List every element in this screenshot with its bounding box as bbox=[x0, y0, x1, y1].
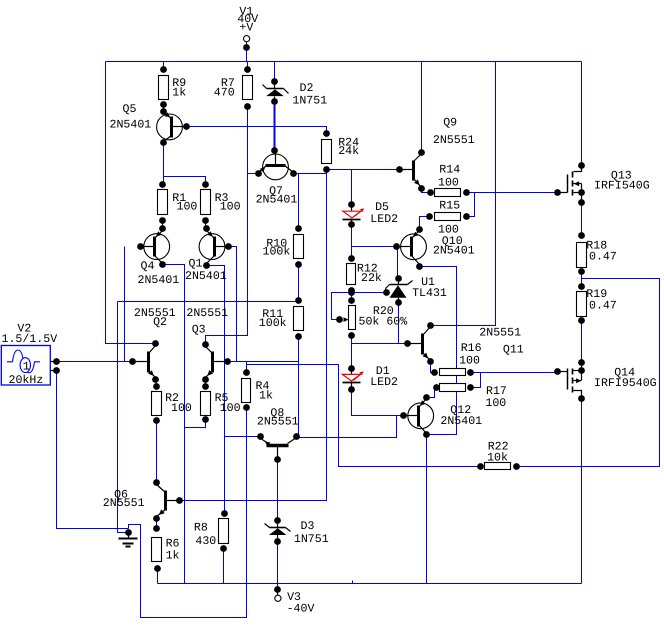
source V2 box bbox=[1, 346, 50, 386]
resistor R12 bbox=[347, 264, 356, 285]
wire R19 to Q14 bbox=[581, 321, 583, 363]
transistor Q12 bbox=[400, 394, 434, 438]
wire R12 junction bbox=[351, 291, 353, 301]
svg-text:100k: 100k bbox=[263, 246, 291, 259]
value D3 1N751 bbox=[294, 533, 329, 546]
pin dots R15 bbox=[426, 213, 470, 220]
value R5 100 bbox=[220, 402, 241, 415]
resistor R5 bbox=[201, 392, 211, 416]
label R20 bbox=[373, 305, 394, 318]
value R20 50k 60% bbox=[359, 315, 408, 328]
svg-text:Q2: Q2 bbox=[153, 316, 167, 329]
wire output to R22 bbox=[517, 279, 660, 467]
label R7 bbox=[221, 77, 235, 90]
svg-text:R15: R15 bbox=[439, 199, 460, 212]
label R14 bbox=[439, 164, 460, 177]
svg-text:22k: 22k bbox=[361, 272, 382, 285]
wire Q9 emitter to R14 bbox=[422, 189, 431, 193]
svg-text:2N5401: 2N5401 bbox=[256, 194, 298, 207]
label +V bbox=[239, 21, 253, 34]
value Q5 2N5401 bbox=[110, 118, 152, 131]
wire rail stub bbox=[352, 581, 354, 584]
svg-text:Q1: Q1 bbox=[189, 257, 203, 270]
value Q12 2N5401 bbox=[440, 415, 482, 428]
svg-text:2N5401: 2N5401 bbox=[138, 274, 180, 287]
label D1 bbox=[376, 365, 390, 378]
wire R24 to D5 and Q9 base bbox=[327, 169, 400, 171]
label Q3 bbox=[192, 324, 206, 337]
resistor R3 bbox=[201, 190, 211, 215]
label 2N5551 Q2 bbox=[134, 307, 176, 320]
LED D5 bbox=[343, 201, 365, 228]
value R2 100 bbox=[171, 402, 192, 415]
wire U1 anode drop bbox=[398, 303, 400, 344]
wire Q1 emitter tail to R8 bbox=[207, 266, 225, 514]
label Q10 bbox=[442, 235, 463, 248]
label Q4 bbox=[141, 260, 155, 273]
label R9 bbox=[172, 77, 186, 90]
svg-text:1k: 1k bbox=[172, 87, 186, 100]
pin dots R11 bbox=[295, 297, 302, 340]
label R10 bbox=[266, 238, 287, 251]
svg-text:430: 430 bbox=[195, 535, 216, 548]
wire rail to Q13 drain bbox=[581, 62, 583, 166]
svg-text:1k: 1k bbox=[259, 389, 273, 402]
source V2 sine bbox=[7, 350, 40, 373]
wire R10 to R11 bbox=[298, 265, 300, 301]
resistor R16 bbox=[440, 369, 466, 376]
pin dots R12 bbox=[348, 255, 355, 296]
wire R14 to Q13 gate bbox=[467, 192, 558, 194]
value D2 1N751 bbox=[292, 95, 327, 108]
resistor R11 bbox=[294, 307, 304, 331]
resistor R18 bbox=[577, 243, 587, 268]
svg-text:100: 100 bbox=[459, 355, 480, 368]
resistor R7 bbox=[243, 76, 253, 100]
value R4 1k bbox=[259, 389, 273, 402]
transistor Q2 bbox=[129, 340, 159, 383]
wire D3 to V3 bbox=[277, 542, 279, 590]
wire Q1 base drop bbox=[229, 247, 237, 362]
wire Q14 drain to rail bbox=[581, 399, 583, 584]
resistor R15 bbox=[435, 213, 461, 221]
pin dots R19 bbox=[578, 283, 585, 324]
pin dots R6 bbox=[153, 525, 161, 572]
svg-text:D2: D2 bbox=[300, 82, 314, 95]
wire tail branch to Q8 emitter bbox=[225, 436, 261, 438]
wire R15 to Q10 collector bbox=[420, 217, 430, 230]
svg-text:2N5401: 2N5401 bbox=[110, 118, 152, 131]
svg-text:1.5/1.5V: 1.5/1.5V bbox=[2, 333, 58, 346]
value R17 100 bbox=[485, 397, 506, 410]
wire V1 to top rail bbox=[246, 42, 248, 62]
wire V2 plus row bbox=[57, 361, 133, 363]
ground bbox=[119, 529, 138, 546]
svg-text:100k: 100k bbox=[259, 317, 287, 330]
svg-text:IRFI540G: IRFI540G bbox=[594, 180, 650, 193]
wire R2 to Q6 collector bbox=[156, 421, 158, 483]
wire R1 to Q4 bbox=[162, 221, 164, 229]
value Q6 2N5551 bbox=[103, 497, 145, 510]
svg-text:2N5401: 2N5401 bbox=[440, 415, 482, 428]
pin dots R24 bbox=[323, 130, 330, 173]
svg-text:0.47: 0.47 bbox=[589, 251, 617, 264]
value -40V bbox=[287, 603, 315, 616]
svg-text:24k: 24k bbox=[338, 145, 359, 158]
label R8 bbox=[194, 522, 208, 535]
transistor Q4 bbox=[137, 225, 170, 268]
wire Q3 emitter to R5 bbox=[205, 380, 207, 387]
svg-text:2N5551: 2N5551 bbox=[257, 416, 299, 429]
label 20kHz bbox=[9, 374, 44, 387]
svg-text:R16: R16 bbox=[461, 342, 482, 355]
svg-text:1: 1 bbox=[23, 361, 30, 374]
zener diode D2 bbox=[263, 78, 289, 105]
label R6 bbox=[166, 538, 180, 551]
label R24 bbox=[338, 137, 359, 150]
transistor Q11 bbox=[404, 322, 434, 365]
value Q1 2N5401 bbox=[185, 270, 227, 283]
svg-text:R14: R14 bbox=[439, 164, 460, 177]
value R14 100 bbox=[438, 176, 459, 189]
wire R17 to Q12 collector bbox=[427, 388, 437, 398]
wire Q10 emitter tail to Q12 emitter bbox=[420, 267, 457, 435]
value R11 100k bbox=[259, 317, 287, 330]
wire R9 to Q5 bbox=[163, 105, 165, 112]
wire R18 to R19 bbox=[581, 272, 583, 287]
label Q14 bbox=[614, 366, 635, 379]
svg-text:100: 100 bbox=[171, 402, 192, 415]
svg-text:Q4: Q4 bbox=[141, 260, 155, 273]
svg-text:+V: +V bbox=[239, 21, 253, 34]
transistor Q10 bbox=[393, 226, 426, 270]
resistor R2 bbox=[152, 392, 162, 416]
svg-text:Q9: Q9 bbox=[443, 117, 457, 130]
label V2 bbox=[17, 323, 31, 336]
wire U1 ref bbox=[352, 292, 387, 294]
source V2 leads bbox=[51, 358, 60, 374]
wire Q3 base row bbox=[228, 361, 299, 363]
transistor Q5 bbox=[157, 108, 190, 146]
value R16 100 bbox=[459, 355, 480, 368]
pin dots R3 bbox=[202, 181, 209, 224]
pin dots R8 bbox=[220, 510, 228, 552]
svg-text:Q5: Q5 bbox=[123, 103, 137, 116]
label R12 bbox=[357, 262, 378, 275]
value R12 22k bbox=[361, 272, 382, 285]
resistor R19 bbox=[577, 292, 587, 317]
wire R6 to -40V rail bbox=[157, 569, 159, 584]
value R8 430 bbox=[195, 535, 216, 548]
wire D1 to Q12 base bbox=[352, 390, 404, 416]
svg-text:R8: R8 bbox=[194, 522, 208, 535]
svg-text:1N751: 1N751 bbox=[292, 95, 327, 108]
label Q5 bbox=[123, 103, 137, 116]
resistor R10 bbox=[294, 235, 304, 259]
wire R16 to Q14 gate bbox=[471, 372, 558, 374]
wire pot wiper loop bbox=[332, 293, 352, 320]
label R3 bbox=[215, 192, 229, 205]
svg-text:-40V: -40V bbox=[287, 603, 315, 616]
resistor R8 bbox=[219, 519, 229, 544]
transistor Q6 bbox=[153, 479, 183, 522]
svg-text:D3: D3 bbox=[301, 520, 315, 533]
wire Q9 collector to rail bbox=[421, 62, 423, 153]
value Q7 2N5401 bbox=[256, 194, 298, 207]
wire Q4 base drop to Q2 base bbox=[125, 247, 133, 362]
value R1 100 bbox=[177, 200, 198, 213]
value R22 10k bbox=[487, 451, 508, 464]
potentiometer R20 bbox=[336, 297, 355, 339]
wire R5 join tail bbox=[185, 420, 206, 428]
LED D1 bbox=[342, 365, 363, 393]
wire Q8 collector to Q12 base net bbox=[297, 416, 397, 438]
label U1 bbox=[421, 276, 435, 289]
wire D5 drop bbox=[351, 170, 353, 205]
wire Q8 base to D3 bbox=[277, 460, 279, 521]
wire D5 bottom stack bbox=[351, 225, 353, 259]
value Q10 2N5401 bbox=[433, 244, 475, 257]
label R19 bbox=[586, 288, 607, 301]
source V2 cycle 1 bbox=[23, 361, 30, 374]
label R18 bbox=[586, 240, 607, 253]
wire R11 top feed bbox=[118, 301, 299, 303]
wire feedback branch to R22 bbox=[247, 365, 481, 467]
svg-text:50k 60%: 50k 60% bbox=[359, 315, 408, 328]
label Q6 bbox=[114, 489, 128, 502]
wire Q12 emitter to rail bbox=[426, 435, 428, 584]
wire rail bus to Q11 collector bbox=[431, 62, 496, 326]
wire left bus to Q2 collector bbox=[106, 62, 156, 344]
wire V2 minus down bbox=[57, 371, 129, 529]
pin dots R16 bbox=[431, 369, 474, 376]
wire Q5 base to R24 top bbox=[187, 127, 327, 134]
wire down to D1 bbox=[351, 344, 353, 369]
svg-text:Q11: Q11 bbox=[503, 343, 524, 356]
label R22 bbox=[488, 441, 509, 454]
value R6 1k bbox=[166, 549, 180, 562]
value R24 24k bbox=[338, 145, 359, 158]
wire ground branch bbox=[118, 302, 127, 533]
transistor Q8 bbox=[257, 433, 300, 463]
svg-text:LED2: LED2 bbox=[370, 213, 398, 226]
pin dots R5 bbox=[202, 383, 209, 423]
label 40V bbox=[237, 13, 258, 26]
label Q9 bbox=[443, 117, 457, 130]
voltage source V1 terminal bbox=[243, 36, 250, 51]
svg-text:2N5551: 2N5551 bbox=[433, 134, 475, 147]
shunt regulator U1 bbox=[383, 275, 412, 306]
pin dots R17 bbox=[433, 384, 474, 391]
pin dots R10 bbox=[295, 225, 302, 268]
value R9 1k bbox=[172, 87, 186, 100]
value Q4 2N5401 bbox=[138, 274, 180, 287]
value Q9 2N5551 bbox=[433, 134, 475, 147]
wire Q7 collector to R24 column bbox=[294, 173, 327, 175]
MOSFET Q14 bbox=[554, 359, 585, 402]
svg-text:470: 470 bbox=[214, 87, 235, 100]
value R3 100 bbox=[220, 200, 241, 213]
resistor R9 bbox=[159, 76, 169, 100]
pin dots R18 bbox=[578, 232, 585, 275]
value V2 1.5/1.5V bbox=[2, 333, 58, 346]
wire Q4 emitter tail bbox=[163, 265, 185, 584]
resistor R17 bbox=[440, 384, 466, 392]
label Q7 bbox=[269, 185, 283, 198]
transistor Q7 bbox=[255, 147, 297, 180]
value R19 0.47 bbox=[589, 299, 617, 312]
label D3 bbox=[301, 520, 315, 533]
svg-text:2N5401: 2N5401 bbox=[433, 244, 475, 257]
transistor Q3 bbox=[202, 341, 231, 383]
wire R9 stub bbox=[163, 62, 165, 70]
pin dots R9 bbox=[160, 66, 167, 108]
wire -40V rail bbox=[158, 583, 582, 585]
label D5 bbox=[375, 201, 389, 214]
pin dots R14 bbox=[427, 189, 470, 196]
label V3 bbox=[287, 591, 301, 604]
svg-text:LED2: LED2 bbox=[370, 376, 398, 389]
svg-text:0.47: 0.47 bbox=[589, 299, 617, 312]
svg-text:2N5551: 2N5551 bbox=[103, 497, 145, 510]
svg-text:100: 100 bbox=[177, 200, 198, 213]
value R18 0.47 bbox=[589, 251, 617, 264]
resistor R14 bbox=[435, 189, 461, 197]
pin dots R1 bbox=[159, 181, 166, 224]
label Q1 bbox=[189, 257, 203, 270]
wire Q7 emitter column to Q3 collector bbox=[206, 174, 248, 345]
value R10 100k bbox=[263, 246, 291, 259]
wire Q13 source to R18 bbox=[581, 203, 583, 236]
voltage source V3 terminal bbox=[274, 586, 281, 601]
pin dots R7 bbox=[244, 66, 251, 110]
wire R8 to rail bbox=[223, 549, 225, 584]
svg-text:2N5551: 2N5551 bbox=[186, 307, 228, 320]
label R1 bbox=[172, 192, 186, 205]
wire Q2 emitter to R2 bbox=[156, 380, 157, 387]
svg-text:100: 100 bbox=[438, 176, 459, 189]
label Q2 bbox=[153, 316, 167, 329]
label Q12 bbox=[450, 404, 471, 417]
wire top +40V rail bbox=[106, 61, 582, 63]
value Q14 IRFI9540G bbox=[594, 377, 657, 390]
label D2 bbox=[300, 82, 314, 95]
wire R20 bottom to Q11 base bbox=[352, 336, 408, 344]
svg-text:100: 100 bbox=[485, 397, 506, 410]
value R7 470 bbox=[214, 87, 235, 100]
label Q13 bbox=[611, 170, 632, 183]
svg-text:20kHz: 20kHz bbox=[9, 374, 44, 387]
pin dots R22 bbox=[477, 463, 520, 470]
wire Q5 emitter to R1 R3 tops bbox=[163, 143, 165, 185]
svg-text:100: 100 bbox=[220, 402, 241, 415]
wire branch to R3 top bbox=[164, 177, 206, 185]
label R4 bbox=[256, 380, 270, 393]
svg-text:2N5401: 2N5401 bbox=[185, 270, 227, 283]
svg-text:1N751: 1N751 bbox=[294, 533, 329, 546]
resistor R22 bbox=[485, 463, 511, 470]
value Q8 2N5551 bbox=[257, 416, 299, 429]
label V1 bbox=[239, 5, 253, 18]
value R15 100 bbox=[438, 224, 459, 237]
transistor Q9 bbox=[396, 149, 425, 192]
resistor R1 bbox=[158, 190, 168, 215]
wire R3 to Q1 bbox=[205, 221, 207, 229]
resistor R4 bbox=[242, 379, 251, 403]
label R11 bbox=[262, 308, 283, 321]
svg-text:IRFI9540G: IRFI9540G bbox=[594, 377, 657, 390]
wire branch to R10 bbox=[298, 174, 300, 229]
transistor Q1 bbox=[199, 225, 232, 269]
label R16 bbox=[461, 342, 482, 355]
wire R15 join bbox=[467, 193, 475, 217]
resistor R24 bbox=[322, 140, 332, 164]
value Q13 IRFI540G bbox=[594, 180, 650, 193]
wire R7 stub bbox=[247, 62, 249, 70]
svg-text:TL431: TL431 bbox=[412, 287, 447, 300]
wire Q11 emitter to R16 bbox=[431, 362, 435, 373]
label R5 bbox=[215, 392, 229, 405]
value D5 LED2 bbox=[370, 213, 398, 226]
zener diode D3 bbox=[265, 517, 291, 545]
value D1 LED2 bbox=[370, 376, 398, 389]
wire D2 to Q7 base bbox=[274, 102, 276, 151]
svg-text:Q3: Q3 bbox=[192, 324, 206, 337]
pin dots R2 bbox=[153, 383, 160, 424]
svg-text:10k: 10k bbox=[487, 451, 508, 464]
wire Q12 base net drop bbox=[396, 416, 398, 438]
label R15 bbox=[439, 199, 460, 212]
label Q11 bbox=[503, 343, 524, 356]
label R17 bbox=[486, 385, 507, 398]
wire R11 bottom to Q8 collector bbox=[298, 337, 300, 438]
wire ground overpass to bottom loop bbox=[129, 408, 247, 618]
MOSFET Q13 bbox=[554, 162, 585, 206]
label Q8 bbox=[270, 407, 284, 420]
wire R24 column down to Q6 base bbox=[180, 170, 327, 501]
wire D2 stub bbox=[274, 62, 276, 82]
svg-text:100: 100 bbox=[220, 200, 241, 213]
svg-text:1k: 1k bbox=[166, 549, 180, 562]
value U1 TL431 bbox=[412, 287, 447, 300]
wire R7 down to Q7 emitter bbox=[248, 107, 259, 174]
svg-text:2N5551: 2N5551 bbox=[479, 327, 521, 340]
wire U1 cathode to Q10 base bbox=[397, 247, 399, 279]
wire Q10 base branch bbox=[352, 246, 397, 248]
resistor R6 bbox=[152, 538, 162, 562]
label R2 bbox=[165, 392, 179, 405]
wire Q6 emitter to R6 bbox=[156, 519, 158, 529]
wire R4 drop bbox=[246, 362, 248, 373]
label 2N5551 Q3 bbox=[186, 307, 228, 320]
pin dots R4 bbox=[243, 369, 250, 411]
wire R17 join bbox=[471, 373, 481, 388]
label 2N5551 Q11 bbox=[479, 327, 521, 340]
